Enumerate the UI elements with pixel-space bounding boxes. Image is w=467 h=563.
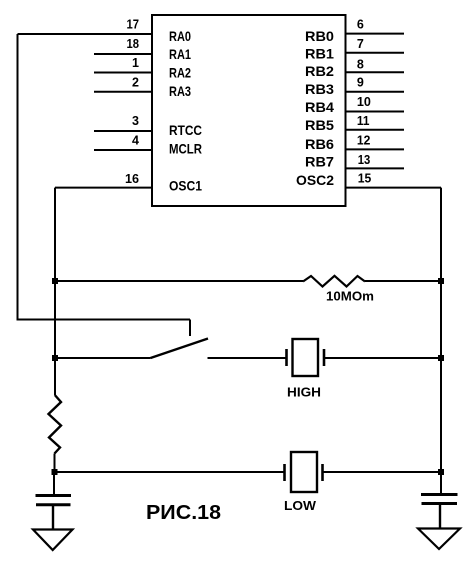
IC U1 body (152, 15, 346, 206)
junction dot left of 10MOm row (52, 278, 58, 284)
junction dot right of 10MOm row (438, 278, 444, 284)
svg-text:8: 8 (357, 57, 364, 71)
svg-text:10: 10 (357, 95, 371, 109)
wire feedback row right segment (365, 280, 441, 282)
crystal LOW body (291, 452, 317, 492)
resistor vertical zigzag (49, 395, 62, 454)
junction dot right of LOW row (438, 469, 444, 475)
svg-text:4: 4 (132, 134, 139, 148)
svg-text:3: 3 (132, 114, 139, 128)
pin 10 wire (RB4) (346, 111, 405, 113)
svg-text:RA3: RA3 (169, 83, 191, 99)
pin 9 wire (RB3) (346, 91, 405, 93)
wire LOW row left segment (55, 471, 285, 473)
pin 17 wire (RA0) (18, 33, 153, 35)
wire OSC1 left rail down (54, 188, 56, 395)
resistor 10MOm zigzag (303, 276, 365, 287)
capacitor C1 bottom plate (36, 503, 71, 506)
wire left cap stem (53, 472, 55, 495)
crystal HIGH body (293, 339, 319, 376)
svg-text:MCLR: MCLR (169, 140, 202, 156)
pin 15 wire (OSC2) (346, 187, 442, 189)
crystal HIGH right plate (323, 349, 326, 366)
pin 16 wire (OSC1) (55, 187, 152, 189)
capacitor C2 top plate (421, 493, 458, 496)
svg-text:12: 12 (357, 133, 371, 147)
pin 6 wire (RB0) (346, 33, 405, 35)
svg-text:RB5: RB5 (305, 117, 334, 133)
wire HIGH row left segment to switch contact (55, 357, 151, 359)
switch lever (151, 339, 209, 359)
svg-text:2: 2 (132, 75, 139, 89)
ground left (33, 530, 73, 551)
pin 12 wire (RB6) (346, 148, 405, 150)
svg-text:RTCC: RTCC (169, 122, 202, 138)
crystal HIGH left plate (285, 349, 288, 366)
pin 18 wire (RA1) (94, 53, 152, 55)
wire OSC2 right rail down (440, 188, 442, 493)
svg-text:OSC1: OSC1 (169, 178, 202, 194)
svg-text:HIGH: HIGH (287, 385, 321, 400)
pin 2 wire (RA3) (94, 91, 152, 93)
pin 7 wire (RB1) (346, 52, 405, 54)
svg-text:17: 17 (127, 18, 140, 32)
svg-text:RB6: RB6 (305, 136, 334, 152)
svg-text:10MOm: 10MOm (326, 289, 374, 304)
wire right ground stem (439, 504, 441, 530)
svg-text:13: 13 (358, 153, 371, 167)
svg-text:6: 6 (357, 18, 364, 32)
svg-text:15: 15 (358, 172, 372, 186)
svg-text:7: 7 (357, 37, 364, 51)
wire switch to crystal HIGH (208, 357, 287, 359)
svg-text:RB3: RB3 (305, 81, 334, 97)
pin 3 wire (RTCC) (94, 130, 152, 132)
ground right (418, 529, 460, 550)
junction dot left of LOW row (52, 469, 58, 475)
svg-text:RB2: RB2 (305, 63, 334, 79)
wire feedback row left segment (55, 280, 303, 282)
capacitor C1 top plate (36, 494, 72, 497)
pin 1 wire (RA2) (94, 72, 152, 74)
svg-text:11: 11 (357, 114, 370, 128)
svg-text:RA1: RA1 (169, 46, 191, 62)
svg-text:RA2: RA2 (169, 64, 191, 80)
svg-text:RB0: RB0 (305, 28, 334, 44)
svg-text:OSC2: OSC2 (296, 172, 334, 188)
svg-text:RA0: RA0 (169, 28, 191, 44)
pin 11 wire (RB5) (346, 129, 405, 131)
wire resistor to LOW row (54, 454, 56, 473)
wire right cap stem (440, 472, 442, 494)
svg-text:LOW: LOW (284, 498, 317, 513)
svg-text:1: 1 (132, 56, 139, 70)
wire crystal HIGH to right rail (324, 357, 441, 359)
crystal LOW left plate (283, 464, 286, 481)
capacitor C2 bottom plate (422, 502, 458, 505)
wire crystal LOW to right rail (323, 471, 442, 473)
wire RA0 left rail down to switch row (18, 34, 191, 320)
junction dot left of HIGH row (52, 355, 58, 361)
pin 13 wire (RB7) (346, 167, 405, 169)
svg-text:18: 18 (127, 37, 140, 51)
svg-text:16: 16 (125, 172, 139, 186)
svg-text:9: 9 (357, 75, 364, 89)
svg-text:RB7: RB7 (305, 154, 334, 170)
wire switch stub down (189, 320, 191, 337)
junction dot right of HIGH row (438, 355, 444, 361)
crystal LOW right plate (321, 464, 324, 481)
pin 4 wire (MCLR) (94, 149, 152, 151)
pin 8 wire (RB2) (346, 71, 405, 73)
svg-text:RB4: RB4 (305, 99, 334, 115)
wire left ground stem (52, 505, 54, 530)
svg-text:РИС.18: РИС.18 (146, 502, 221, 524)
svg-text:RB1: RB1 (305, 46, 334, 62)
